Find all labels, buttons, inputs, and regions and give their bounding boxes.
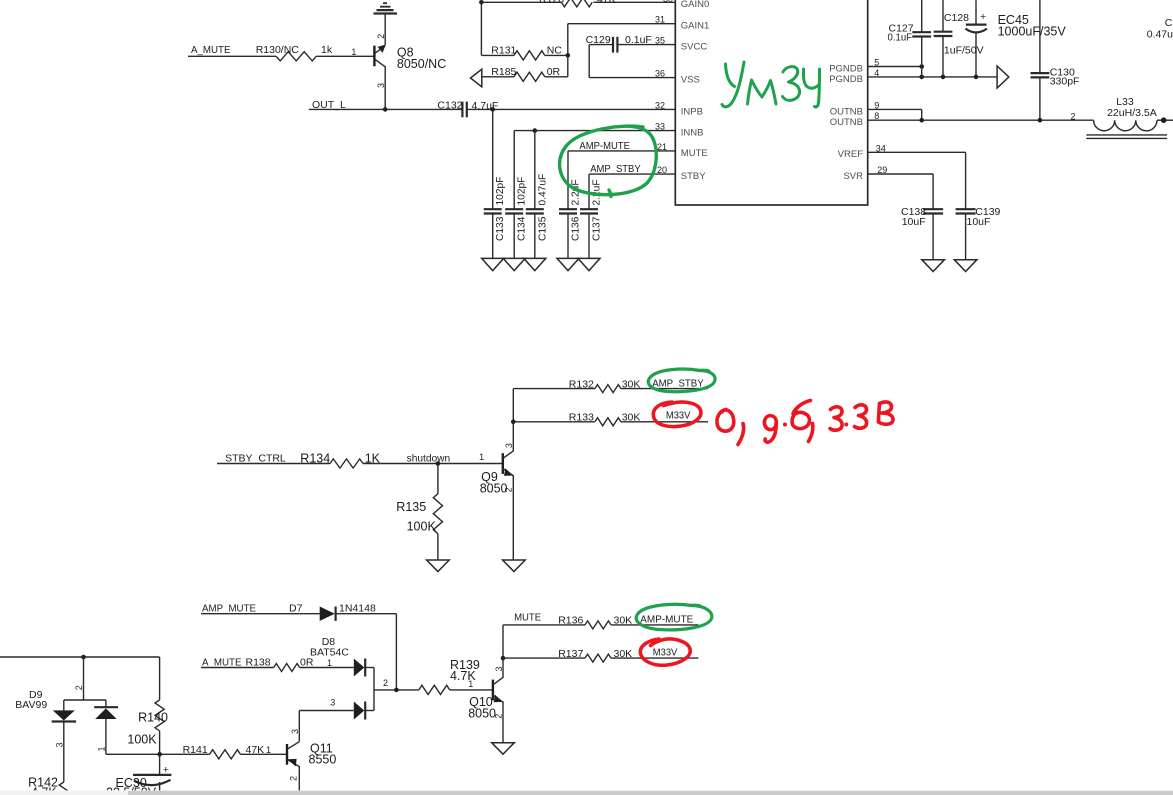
wire C136 lower stub xyxy=(567,214,569,259)
svg-text:R128: R128 xyxy=(539,0,564,6)
svg-text:R130/NC: R130/NC xyxy=(256,44,300,56)
svg-text:1: 1 xyxy=(351,47,356,57)
svg-text:PGNDB: PGNDB xyxy=(829,74,863,85)
capacitor C137 2.2uF xyxy=(580,179,603,241)
earth ground above Q8 xyxy=(374,3,398,13)
electrolytic capacitor EC45 1000uF/35V xyxy=(966,0,1067,77)
svg-text:MUTE: MUTE xyxy=(681,148,708,159)
wire A_MUTE to R130 xyxy=(188,55,276,57)
svg-text:INPB: INPB xyxy=(681,106,703,117)
svg-text:R137: R137 xyxy=(558,648,583,660)
svg-text:R131: R131 xyxy=(491,45,516,57)
svg-text:3: 3 xyxy=(504,443,514,448)
svg-text:BAV99: BAV99 xyxy=(15,699,47,711)
wire C137 lower stub xyxy=(588,214,590,259)
svg-text:R133: R133 xyxy=(569,412,594,424)
wire AMP_MUTE to D7 xyxy=(201,613,320,615)
resistor R139 4.7K xyxy=(419,658,480,695)
svg-text:2: 2 xyxy=(383,678,388,688)
wire port to R185 xyxy=(482,76,514,78)
ground C139 xyxy=(954,260,977,272)
junction R140/EC30 xyxy=(157,752,162,757)
svg-text:MUTE: MUTE xyxy=(514,612,541,624)
svg-text:102pF: 102pF xyxy=(495,177,506,206)
svg-text:M33V: M33V xyxy=(666,410,691,422)
annotation red handwriting 0, 9.5, 3.3 V xyxy=(717,401,893,445)
wire OUTNB pin 9 xyxy=(869,109,922,120)
wire PGNDB pin 5 xyxy=(869,66,922,68)
svg-text:3: 3 xyxy=(376,83,386,88)
svg-text:1000uF/35V: 1000uF/35V xyxy=(998,25,1067,39)
transistor Q9 8050 xyxy=(480,389,514,560)
diode D7 1N4148 xyxy=(289,603,376,621)
svg-text:1k: 1k xyxy=(321,44,333,56)
svg-text:C134: C134 xyxy=(517,216,528,241)
svg-text:AMP_STBY: AMP_STBY xyxy=(590,163,641,175)
ground C136 xyxy=(557,258,579,270)
wire PGNDB pin 4 to port xyxy=(869,76,998,78)
svg-text:AMP-MUTE: AMP-MUTE xyxy=(640,613,693,625)
svg-text:3: 3 xyxy=(290,729,300,734)
svg-text:R138: R138 xyxy=(246,656,271,668)
svg-text:1uF/50V: 1uF/50V xyxy=(944,45,984,57)
resistor R133 30K xyxy=(569,412,641,426)
svg-text:D7: D7 xyxy=(289,603,303,615)
junction C127 on pin4 xyxy=(919,75,924,80)
junction R135 tap xyxy=(436,461,441,466)
wire SVR pin 29 xyxy=(869,174,934,209)
svg-text:10uF: 10uF xyxy=(967,216,991,228)
wire C129 left to VSS loop xyxy=(589,45,675,78)
wire R139 to Q10 base, pin 1 xyxy=(450,679,493,690)
svg-text:A_MUTE: A_MUTE xyxy=(191,44,231,56)
wire R130 to Q8 base, pin 1 xyxy=(316,47,374,57)
svg-text:OUTNB: OUTNB xyxy=(830,117,863,128)
svg-text:C1: C1 xyxy=(1165,17,1173,29)
junction C133 tap on INPB wire xyxy=(490,107,495,112)
junction pin5/C127 xyxy=(919,64,924,69)
svg-text:2: 2 xyxy=(288,776,298,781)
wire C134 drop xyxy=(513,131,515,210)
electrolytic capacitor EC30 22.5/50V xyxy=(106,754,171,795)
svg-text:VREF: VREF xyxy=(838,149,864,160)
wire Q8 emitter to earth ground xyxy=(384,14,386,45)
resistor R137 30K xyxy=(558,648,632,662)
junction pin9/pin8 xyxy=(919,118,924,123)
svg-text:8550: 8550 xyxy=(309,753,337,767)
svg-text:2: 2 xyxy=(376,34,386,39)
wire R131 to junction xyxy=(545,54,568,56)
svg-text:+: + xyxy=(163,764,169,776)
port arrow PGNDB xyxy=(997,66,1009,88)
wire R134 to Q9 base, node shutdown xyxy=(363,452,503,464)
wire C134 lower stub xyxy=(513,214,515,259)
capacitor C133 102pF xyxy=(484,177,507,241)
svg-text:AMP_MUTE: AMP_MUTE xyxy=(202,603,256,615)
svg-text:22uH/3.5A: 22uH/3.5A xyxy=(1107,107,1157,119)
wire D8 common to R139 xyxy=(374,689,419,691)
transistor Q10 8050 xyxy=(468,625,504,743)
junction D9 stem xyxy=(81,655,86,660)
wire R133 row xyxy=(513,421,595,423)
capacitor C127 0.1uF xyxy=(888,0,932,77)
svg-text:shutdown: shutdown xyxy=(407,454,451,465)
svg-text:VSS: VSS xyxy=(681,75,700,86)
svg-text:3: 3 xyxy=(494,666,504,671)
annotation red ellipse around M33V (bottom) xyxy=(640,639,690,665)
wire C133 lower stub xyxy=(492,214,494,259)
svg-text:STBY_CTRL: STBY_CTRL xyxy=(225,452,286,464)
wire OUT_L to C132 xyxy=(309,108,462,110)
wire R138 to D8 pin 1 xyxy=(300,658,354,668)
ground C134 xyxy=(503,258,525,270)
svg-text:2: 2 xyxy=(74,685,84,690)
ground C137 xyxy=(578,258,600,270)
dual diode D8 BAT54C xyxy=(310,636,388,719)
ground Q10 xyxy=(492,743,515,755)
wire R132 to AMP_STBY label xyxy=(621,388,708,390)
junction C128 on pin4 xyxy=(941,75,946,80)
dual diode D9 BAV99 xyxy=(15,689,118,721)
capacitor C130 330pF xyxy=(1031,0,1080,120)
wire D9 right anode down to row, pin 1 xyxy=(97,719,107,754)
svg-text:R134: R134 xyxy=(300,452,330,466)
junction C130 on OUTNB xyxy=(1038,118,1043,123)
junction R137 tap on Q10 collector xyxy=(501,656,506,661)
capacitor C138 10uF xyxy=(901,206,943,260)
junction R131/R185/GAIN1 xyxy=(566,53,571,58)
wire OUTNB pin 8 to L33 xyxy=(869,119,1094,121)
svg-text:1: 1 xyxy=(468,679,473,689)
svg-text:AMP_STBY: AMP_STBY xyxy=(652,377,704,389)
svg-text:A_MUTE: A_MUTE xyxy=(202,656,242,668)
svg-text:GAIN0: GAIN0 xyxy=(681,0,710,10)
svg-text:1: 1 xyxy=(97,746,107,751)
svg-text:C136: C136 xyxy=(571,216,582,241)
svg-text:100K: 100K xyxy=(407,520,437,534)
svg-text:1N4148: 1N4148 xyxy=(339,603,376,615)
svg-text:+: + xyxy=(980,11,986,23)
svg-text:330pF: 330pF xyxy=(1050,76,1080,88)
annotation green circle around AMP-MUTE/AMP_STBY pins xyxy=(560,126,657,196)
svg-text:47K: 47K xyxy=(597,0,616,6)
resistor R134 1K xyxy=(300,452,380,469)
svg-text:0.47uF: 0.47uF xyxy=(537,174,548,206)
capacitor C136 2.2uF xyxy=(559,179,582,241)
wire C136 drop xyxy=(567,151,569,209)
wire top-left net row xyxy=(0,656,160,658)
wire top R129 net with dot xyxy=(479,0,675,5)
annotation green ellipse around AMP_STBY xyxy=(648,369,715,392)
svg-text:R140: R140 xyxy=(138,710,168,724)
annotation handwritten YM34 (green) xyxy=(722,62,820,107)
svg-text:R132: R132 xyxy=(569,378,594,390)
resistor R131 NC xyxy=(491,45,562,61)
wire MUTE pin 21 xyxy=(568,150,675,152)
svg-text:102pF: 102pF xyxy=(517,177,528,206)
wire C137 drop xyxy=(588,174,590,209)
svg-text:GAIN1: GAIN1 xyxy=(681,21,710,32)
wire D7 cathode to junction drop xyxy=(336,614,397,690)
wire L33 to right edge xyxy=(1157,119,1173,121)
svg-text:OUTNB: OUTNB xyxy=(830,106,863,117)
svg-text:R136: R136 xyxy=(558,615,583,627)
resistor R185 0R xyxy=(491,66,560,81)
resistor R138 0R xyxy=(246,656,314,671)
svg-text:C132: C132 xyxy=(437,99,462,111)
annotation green ellipse around AMP-MUTE (bottom) xyxy=(636,604,712,630)
resistor R135 100K xyxy=(396,464,442,561)
wire R136 to AMP-MUTE label xyxy=(611,624,698,626)
wire R137 row xyxy=(503,657,585,659)
junction EC45 on pin4 xyxy=(974,75,979,80)
wire R137 to M33V label xyxy=(611,657,698,659)
svg-text:8050: 8050 xyxy=(468,707,496,721)
scrollbar track xyxy=(0,790,1173,795)
wire C135 lower stub xyxy=(534,214,536,259)
svg-text:SVR: SVR xyxy=(843,171,863,182)
port arrow input R185 xyxy=(471,69,482,87)
svg-text:1: 1 xyxy=(479,452,484,462)
capacitor C131 labels (clipped at edge) xyxy=(1147,17,1173,40)
wire D9 stem, pin 2 xyxy=(64,657,106,710)
wire STBY_CTRL to R134 xyxy=(217,463,330,465)
ground R135 xyxy=(427,560,450,572)
svg-text:M33V: M33V xyxy=(653,646,678,658)
svg-text:1: 1 xyxy=(266,745,271,755)
ground C138 xyxy=(922,260,945,272)
resistor R132 30K xyxy=(569,378,641,392)
junction C135 tap on INNB xyxy=(533,128,538,133)
capacitor C135 0.47uF xyxy=(526,174,549,241)
wire VREF pin 34 xyxy=(869,152,966,209)
wire R185 to junction riser xyxy=(545,55,568,76)
capacitor C139 10uF xyxy=(956,206,1001,260)
IC U-amp body xyxy=(675,0,867,205)
junction R133 tap xyxy=(511,420,516,425)
resistor R129 (clipped at top) xyxy=(561,0,592,7)
wire STBY pin 20 xyxy=(589,173,675,175)
wire R133 to M33V label xyxy=(621,421,708,423)
wire D8 pin 3 to Q11 collector xyxy=(299,698,354,742)
svg-text:C137: C137 xyxy=(592,216,603,241)
svg-text:2: 2 xyxy=(1071,111,1076,121)
svg-text:R135: R135 xyxy=(396,500,426,514)
svg-text:C135: C135 xyxy=(537,216,548,241)
svg-text:2: 2 xyxy=(494,714,504,719)
ground C135 xyxy=(524,258,546,270)
capacitor C128 1uF/50V xyxy=(934,0,984,77)
ground C133 xyxy=(482,258,504,270)
svg-text:8050/NC: 8050/NC xyxy=(397,57,446,71)
svg-text:R185: R185 xyxy=(491,66,516,78)
svg-text:0.47uF: 0.47uF xyxy=(1147,28,1173,40)
wire bottom row D9 to R141 xyxy=(106,753,210,755)
svg-text:10uF: 10uF xyxy=(902,216,926,228)
wire R131 left drop from top dot xyxy=(481,2,514,55)
capacitor C132 4.7uF xyxy=(437,99,498,117)
junction Q8 collector / OUT_L xyxy=(383,107,388,112)
svg-text:PGNDB: PGNDB xyxy=(829,63,863,74)
capacitor C129 0.1uF xyxy=(586,34,652,53)
wire A_MUTE to R138 xyxy=(201,667,274,669)
svg-text:0.1uF: 0.1uF xyxy=(888,32,913,44)
svg-text:3: 3 xyxy=(330,698,335,708)
wire INNB pin 33 xyxy=(514,130,675,132)
annotation red ellipse around M33V (mid) xyxy=(653,402,701,427)
resistor R140 100K xyxy=(127,657,168,754)
wire C129 right to SVCC pin 35 xyxy=(617,44,675,46)
wire MUTE row to R136 xyxy=(503,624,585,626)
svg-text:1: 1 xyxy=(327,658,332,668)
resistor R130/NC 1k xyxy=(256,44,333,61)
svg-text:2: 2 xyxy=(504,487,514,492)
resistor R136 30K xyxy=(558,615,632,629)
resistor R142 4.7K (clipped at bottom) xyxy=(28,776,68,795)
svg-text:INNB: INNB xyxy=(681,128,704,139)
wire R141 to Q11 base, pin 1 xyxy=(240,745,287,755)
junction D7/D8 xyxy=(394,688,399,693)
scrollbar thumb xyxy=(128,791,1173,795)
wire C133 drop xyxy=(492,109,494,209)
transistor Q8 8050/NC xyxy=(374,34,446,110)
svg-text:3: 3 xyxy=(55,742,65,747)
inductor L33 22uH/3.5A xyxy=(1086,96,1167,138)
junction at right edge xyxy=(1161,117,1167,123)
svg-text:100K: 100K xyxy=(127,733,157,747)
capacitor C134 102pF xyxy=(505,177,528,241)
svg-text:STBY: STBY xyxy=(681,171,706,182)
ground Q9 xyxy=(503,560,526,572)
transistor Q11 8550 xyxy=(287,729,336,795)
svg-text:30: 30 xyxy=(663,0,673,4)
wire D9 left cathode to R142, pin 3 xyxy=(55,722,65,783)
wire C135 drop xyxy=(534,131,536,210)
svg-text:R141: R141 xyxy=(183,744,208,756)
svg-text:SVCC: SVCC xyxy=(681,42,708,53)
wire C132 to INPB pin 32 xyxy=(467,108,676,110)
svg-text:BAT54C: BAT54C xyxy=(310,647,349,659)
wire GAIN1 pin 31 to R131 junction xyxy=(568,24,676,56)
wire R132 row xyxy=(513,388,595,390)
svg-text:C128: C128 xyxy=(944,12,969,24)
svg-text:C133: C133 xyxy=(495,216,506,241)
resistor R141 47K xyxy=(183,744,265,759)
